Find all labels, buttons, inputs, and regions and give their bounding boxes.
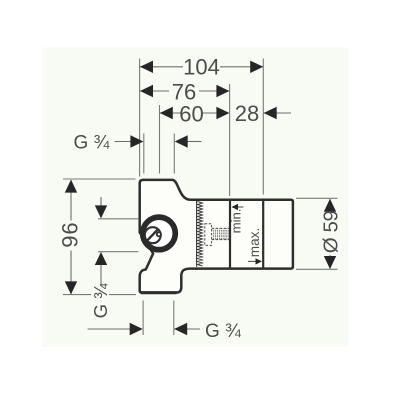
foot bottom thicker edge bbox=[141, 291, 177, 294]
bottom G3/4 extension left bbox=[142, 301, 144, 336]
bottom G3/4 leader right bbox=[174, 328, 200, 330]
dim 28 outside arrow tail bbox=[264, 112, 291, 114]
dim 96 extension bottom bbox=[63, 294, 91, 296]
extension line left (x=139.7) for dims 104/76 bbox=[139, 59, 141, 177]
inner separator line min (x=230) bbox=[229, 201, 231, 268]
max label arrow (pointing right at max line) bbox=[248, 260, 257, 262]
dim 96 line bbox=[70, 180, 72, 221]
extension line for dims 76/60 right (x=229.5) bbox=[229, 84, 231, 196]
screw shaft dashed outline bbox=[212, 228, 230, 239]
spindle inner circle bbox=[145, 227, 161, 243]
svg-text:104: 104 bbox=[183, 54, 220, 79]
body outline bbox=[140, 180, 293, 293]
svg-text:G ¾: G ¾ bbox=[74, 132, 111, 153]
spindle slot bbox=[146, 229, 158, 242]
dia 59 dim line bbox=[329, 199, 331, 211]
svg-text:min.: min. bbox=[229, 208, 244, 233]
spindle knob bbox=[157, 232, 161, 236]
svg-text:max.: max. bbox=[247, 228, 262, 257]
arrow 96 top (pointing up) bbox=[65, 180, 77, 193]
arrow bottom G3/4 right (pointing left) bbox=[174, 323, 187, 335]
arrow 76 left bbox=[140, 85, 153, 97]
arrow G3/4 top left (pointing right) bbox=[130, 135, 143, 147]
G3/4 top label leader left bbox=[115, 141, 132, 143]
bottom G3/4 extension right bbox=[173, 301, 175, 336]
arrow side port bottom (pointing up) bbox=[95, 252, 107, 265]
side port G3/4 extension top bbox=[98, 218, 138, 220]
spindle ring bbox=[143, 217, 176, 250]
svg-text:96: 96 bbox=[57, 221, 82, 247]
svg-text:G ¾: G ¾ bbox=[205, 321, 242, 342]
extension line for dims 104/28 right (x=263.3) bbox=[262, 59, 264, 195]
arrow bottom G3/4 left (pointing right) bbox=[130, 323, 143, 335]
extension line G3/4 top left port edge bbox=[143, 134, 145, 174]
arrow 96 bottom (pointing down) bbox=[65, 281, 77, 294]
thread zigzag hatching bbox=[198, 202, 203, 267]
arrow 104 left bbox=[140, 61, 153, 73]
dim 76 line bbox=[140, 90, 169, 92]
side port G3/4 leader below bbox=[100, 264, 102, 286]
inner separator line max (x=263.2) bbox=[262, 201, 264, 268]
extension line for dim 60 left bbox=[159, 105, 161, 174]
arrow 76 right bbox=[216, 85, 229, 97]
hidden screw head (dashed) bbox=[205, 224, 212, 246]
min label arrow (pointing left at min line) bbox=[237, 206, 244, 208]
arrow 28 right (outside, pointing left) bbox=[264, 107, 277, 119]
arrow 60 right bbox=[216, 107, 229, 119]
dim 96 extension top bbox=[63, 178, 136, 180]
arrows bbox=[65, 61, 336, 336]
side port G3/4 extension bottom bbox=[98, 251, 138, 253]
dim 60 line bbox=[160, 112, 181, 114]
svg-text:60: 60 bbox=[179, 101, 203, 126]
arrow dia59 top (pointing up) bbox=[324, 199, 336, 212]
G3/4 top label leader right bbox=[188, 141, 202, 143]
svg-text:28: 28 bbox=[235, 101, 259, 126]
extension line G3/4 top right port edge bbox=[173, 134, 175, 174]
dim 104 line bbox=[140, 66, 183, 68]
dia 59 extension bottom bbox=[296, 268, 338, 270]
thread zone left boundary bbox=[196, 201, 198, 267]
side port G3/4 leader above bbox=[100, 197, 102, 207]
bottom G3/4 leader left bbox=[88, 328, 132, 330]
arrow side port top (pointing down) bbox=[95, 205, 107, 218]
arrow 60 left bbox=[160, 107, 173, 119]
dia 59 extension top bbox=[296, 197, 338, 199]
svg-text:G ¾: G ¾ bbox=[90, 283, 111, 319]
screw shaft hatched bbox=[212, 228, 229, 239]
arrow dia59 bottom (pointing down) bbox=[324, 256, 336, 269]
arrow 104 right bbox=[250, 61, 263, 73]
arrow G3/4 top right (pointing left) bbox=[175, 135, 188, 147]
scan area tint bbox=[42, 48, 349, 348]
svg-text:Ø 59: Ø 59 bbox=[319, 210, 342, 253]
